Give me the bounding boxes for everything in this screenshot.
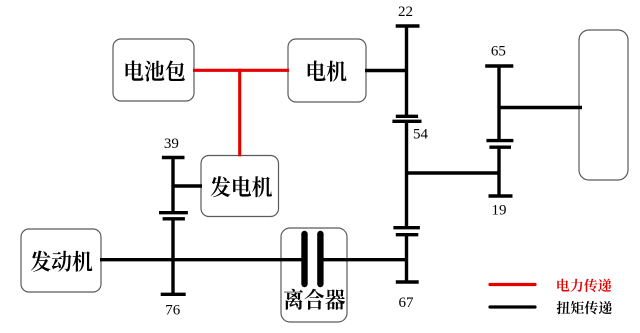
clutch box 离合器 [281, 228, 347, 322]
gear tick 19 at right shaft bottom [489, 194, 513, 197]
gear teeth number 54 [413, 126, 429, 142]
battery pack box 电池包 [113, 39, 194, 101]
label 电池包 (battery pack) [126, 60, 185, 81]
svg-text:67: 67 [399, 295, 415, 311]
gear teeth number 19 [492, 203, 507, 219]
svg-text:22: 22 [398, 4, 413, 20]
svg-text:39: 39 [164, 136, 179, 152]
legend: red electric-power line sample [490, 283, 535, 286]
gear mesh pair 54: lower bar [392, 120, 421, 123]
gear teeth number 76 [165, 302, 181, 318]
label 发动机 (engine) [31, 251, 92, 272]
wire: left shaft lower segment (gear 76 shaft) [171, 219, 174, 294]
wire: link right shaft to final drive block [499, 106, 582, 109]
gear mesh pair 67: lower bar [396, 233, 419, 236]
gear teeth number 67 [399, 295, 415, 311]
svg-text:19: 19 [492, 203, 507, 219]
wire: engine output shaft to clutch left plate [100, 258, 302, 261]
legend label 电力传递 (electric power transfer) [557, 279, 611, 292]
legend: black torque line sample [490, 305, 535, 308]
svg-text:76: 76 [165, 302, 181, 318]
svg-text:65: 65 [491, 44, 506, 60]
label 离合器 (clutch) [284, 289, 345, 310]
wire: right shaft lower segment (gear 19 shaft) [497, 147, 500, 196]
final drive / vehicle block [579, 30, 628, 180]
svg-text:54: 54 [413, 126, 429, 142]
generator box 发电机 [201, 156, 279, 217]
wire: link left shaft to generator [173, 184, 202, 187]
motor box 电机 [288, 39, 366, 102]
engine box 发动机 [21, 229, 101, 292]
label 电机 (motor) [308, 61, 347, 82]
wire: central shaft middle segment [405, 121, 408, 227]
legend label 扭矩传递 (torque transfer) [557, 301, 612, 314]
wire: motor output link to central shaft [365, 69, 407, 72]
wire: red electric line battery to motor [193, 69, 289, 72]
gear tick 65 on right shaft top [485, 64, 513, 67]
label 发电机 (generator) [211, 176, 272, 197]
wire: clutch output to central shaft [323, 258, 407, 261]
gear mesh pair 39/76: lower bar [163, 217, 185, 220]
wire: central shaft lower segment (gear 67 shaft) [405, 235, 408, 282]
wire: central shaft upper segment (gear 22 shaft) [405, 26, 408, 116]
wire: right shaft upper segment (gear 65 shaft) [497, 66, 500, 141]
gear teeth number 65 [491, 44, 506, 60]
wire: red electric line down to generator [238, 69, 241, 156]
gear teeth number 22 [398, 4, 413, 20]
gear tick 39 on left shaft top [162, 156, 185, 159]
clutch right plate [317, 234, 323, 284]
gear teeth number 39 [164, 136, 179, 152]
gear tick 22 on central shaft top [396, 24, 420, 27]
wire: link central shaft to right shaft [407, 171, 500, 174]
gear mesh pair 67: upper bar [393, 226, 420, 229]
gear mesh pair 65/19: upper bar [486, 139, 513, 142]
gear mesh pair 39/76: upper bar [159, 211, 188, 214]
wire: left shaft upper segment (gear 39 shaft) [171, 158, 174, 213]
gear tick 76 at left shaft bottom [161, 293, 186, 296]
gear tick 67 at central shaft bottom [396, 280, 419, 283]
clutch left plate [301, 234, 307, 284]
gear mesh pair 65/19: lower bar [489, 145, 511, 148]
gear mesh pair 54: upper bar [396, 115, 418, 118]
